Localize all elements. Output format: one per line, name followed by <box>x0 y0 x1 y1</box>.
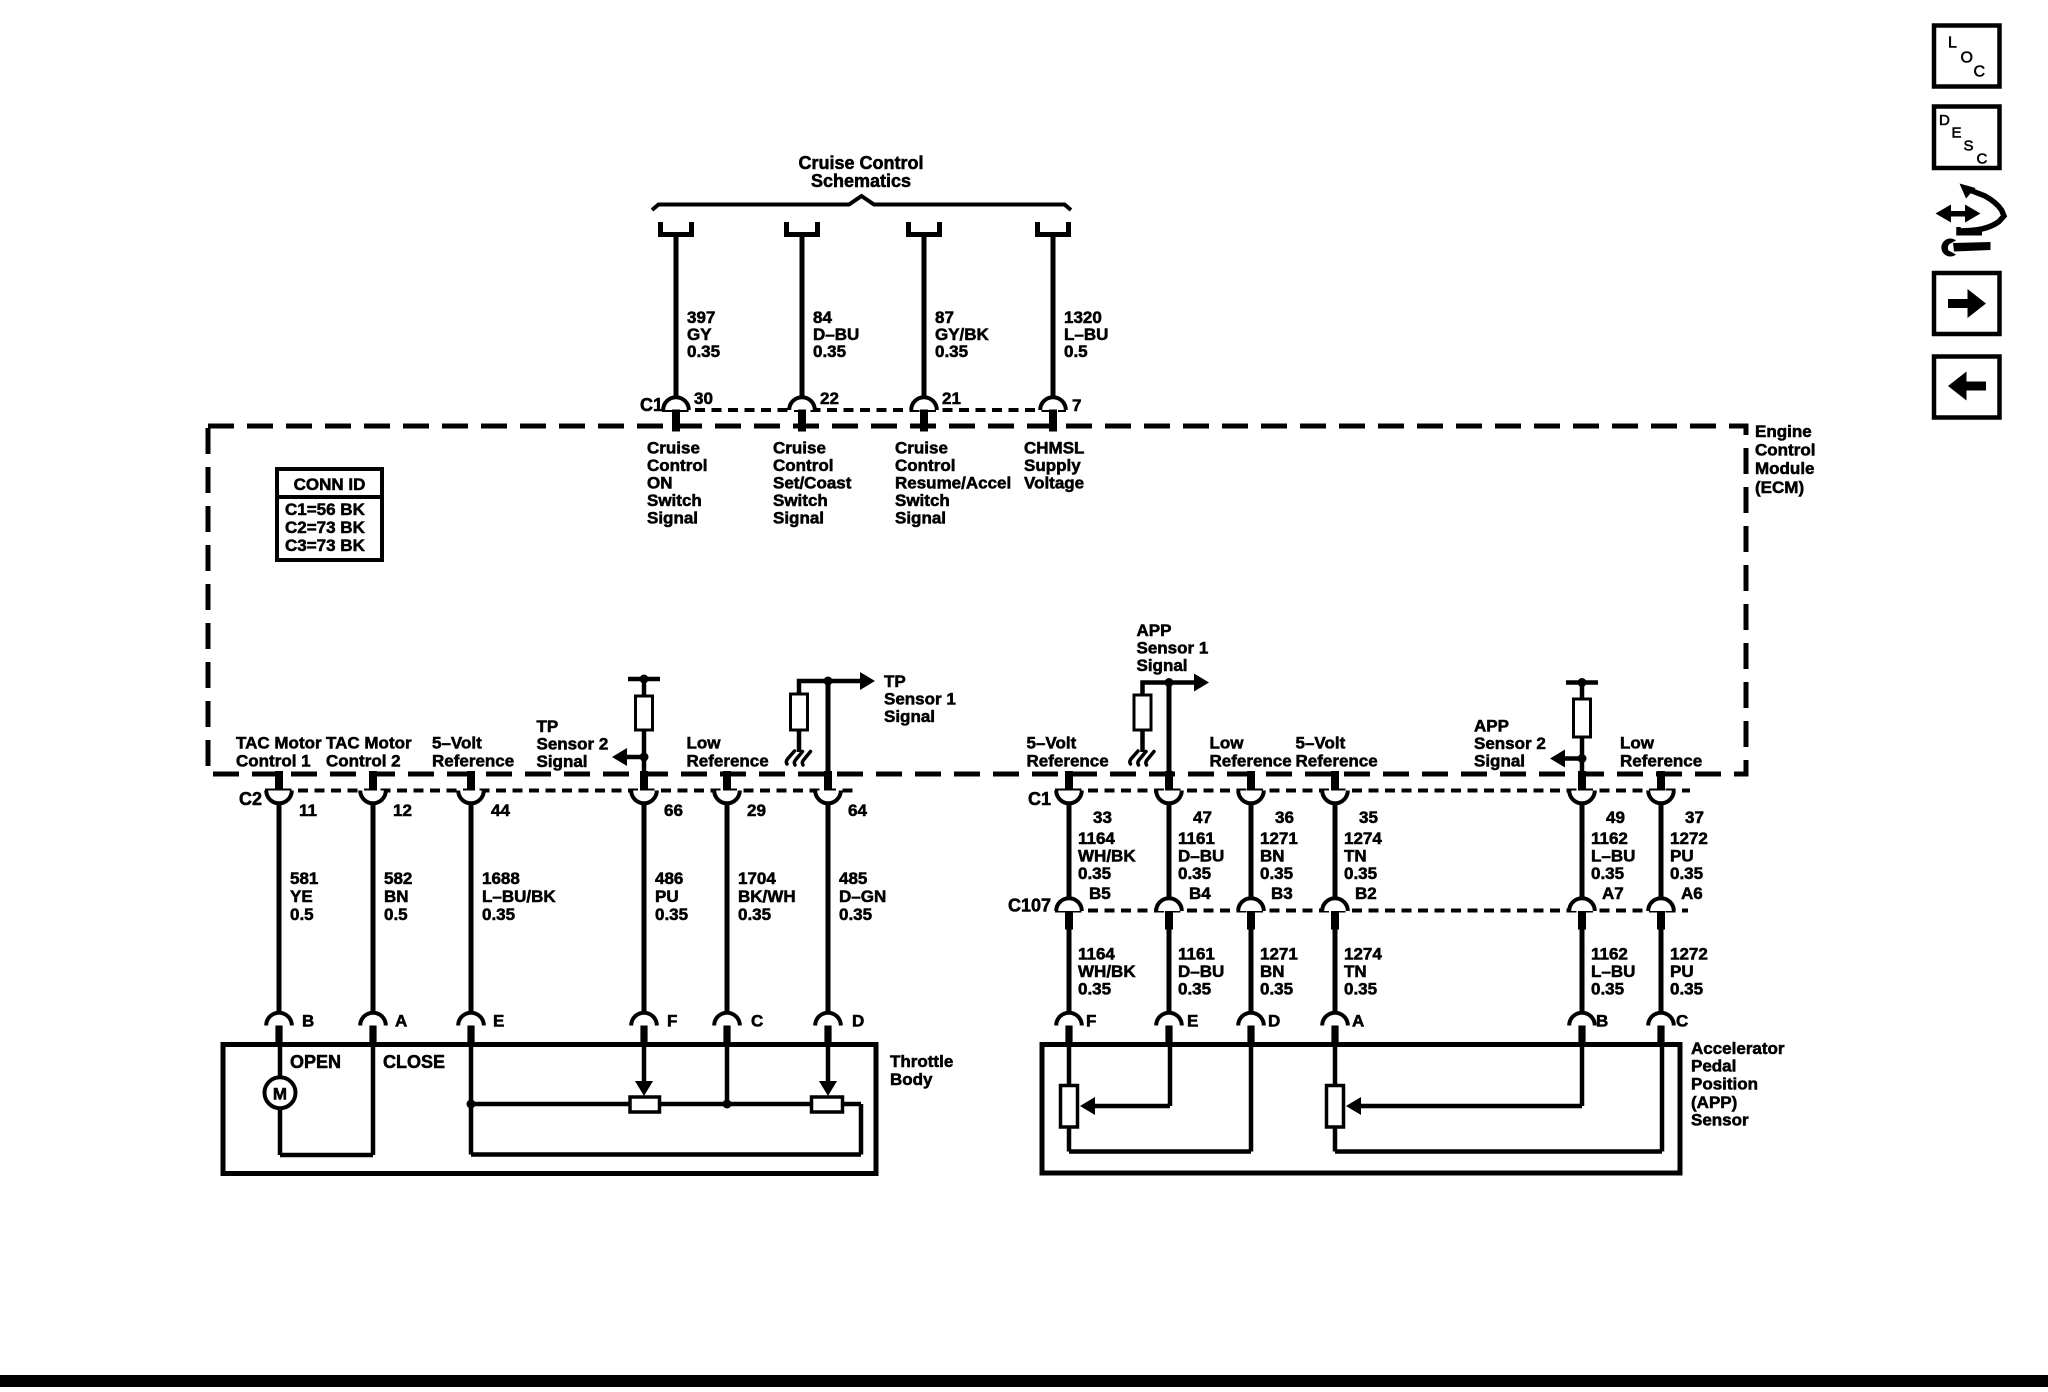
svg-text:D: D <box>1268 1012 1280 1031</box>
internal 5V bar over resistor R-APP2 <box>1566 680 1598 685</box>
svg-text:CONN ID: CONN ID <box>294 475 366 494</box>
rail right of potentiometer <box>843 1102 862 1107</box>
svg-text:BN: BN <box>1260 962 1285 981</box>
svg-text:B4: B4 <box>1189 884 1211 903</box>
TP Sensor 1 signal arrowhead <box>860 672 875 690</box>
svg-text:B5: B5 <box>1089 884 1111 903</box>
svg-text:33: 33 <box>1093 808 1112 827</box>
APP Sensor 2 signal arrowhead <box>1550 750 1565 768</box>
wire pin B down to wiper <box>1580 1045 1585 1107</box>
svg-text:E: E <box>493 1012 504 1031</box>
svg-text:C1: C1 <box>640 395 663 415</box>
svg-text:Signal: Signal <box>1137 656 1188 675</box>
svg-text:0.35: 0.35 <box>1670 980 1703 999</box>
pin 22 stub into ECM <box>798 410 806 432</box>
connector pin B2 terminal (C107) <box>1322 898 1348 911</box>
svg-text:L–BU/BK: L–BU/BK <box>482 887 556 906</box>
svg-text:C: C <box>751 1012 763 1031</box>
APP Sensor 2 signal arrow shaft <box>1559 756 1582 761</box>
wire pin D up <box>1249 1045 1254 1152</box>
svg-text:0.35: 0.35 <box>1344 864 1377 883</box>
svg-text:E: E <box>1952 125 1962 142</box>
pin 12 stub out of ECM <box>369 771 377 792</box>
svg-text:Reference: Reference <box>1620 752 1702 771</box>
svg-text:CHMSL: CHMSL <box>1024 438 1084 457</box>
svg-text:TP: TP <box>884 672 906 691</box>
svg-text:1164: 1164 <box>1078 945 1115 964</box>
pin F stub into APP sensor <box>1065 1026 1072 1045</box>
svg-text:Position: Position <box>1691 1075 1758 1094</box>
TP sensor 1 wiper arrowhead <box>819 1081 837 1096</box>
svg-text:1271: 1271 <box>1260 945 1298 964</box>
svg-text:1164: 1164 <box>1078 829 1115 848</box>
wire R-TP1 bottom to ground <box>797 730 802 752</box>
svg-text:(ECM): (ECM) <box>1755 478 1804 497</box>
svg-text:BK/WH: BK/WH <box>738 887 796 906</box>
svg-text:APP: APP <box>1137 621 1172 640</box>
svg-text:0.35: 0.35 <box>1178 864 1211 883</box>
wrench/double-arrow icon <box>1936 205 1952 223</box>
throttle body pin B terminal <box>266 1013 292 1026</box>
APP sensor 2 wiper arrow shaft <box>1351 1104 1582 1109</box>
svg-text:Cruise: Cruise <box>895 438 948 457</box>
pin 47 stub out of ECM <box>1165 771 1173 792</box>
wire pin 47 down from junction <box>1167 683 1172 774</box>
svg-text:Signal: Signal <box>773 508 824 527</box>
pin 64 stub out of ECM <box>824 771 832 792</box>
resistor R-TP2 (pull-up, pin 66) <box>636 696 653 730</box>
connector pin 29 terminal (C2) <box>714 791 740 804</box>
svg-text:PU: PU <box>655 887 679 906</box>
TP Sensor 2 signal arrowhead <box>612 748 627 766</box>
svg-text:Signal: Signal <box>895 508 946 527</box>
pin 35 stub out of ECM <box>1331 771 1339 792</box>
APP sensor 1 wiper arrowhead <box>1080 1097 1095 1115</box>
pin 44 stub out of ECM <box>467 771 475 792</box>
svg-text:582: 582 <box>384 869 412 888</box>
wire pin A7 down to APP sensor <box>1580 929 1585 1014</box>
svg-text:M: M <box>273 1085 287 1104</box>
svg-text:Throttle: Throttle <box>890 1052 953 1071</box>
connector pin A6 terminal (C107) <box>1648 898 1674 911</box>
svg-text:5–Volt: 5–Volt <box>1027 734 1077 753</box>
wire pin E down to wiper <box>1168 1045 1173 1107</box>
throttle body pin E terminal <box>458 1013 484 1026</box>
svg-text:0.35: 0.35 <box>813 342 846 361</box>
wire pin 37 down to C107 <box>1659 803 1664 899</box>
bottom return wire <box>471 1152 861 1157</box>
pin 29 stub out of ECM <box>723 771 731 792</box>
svg-text:0.35: 0.35 <box>1078 980 1111 999</box>
svg-text:0.35: 0.35 <box>935 342 968 361</box>
wire up to E junction <box>469 1104 474 1155</box>
pin B3 stub below C107 <box>1247 911 1255 930</box>
wire pin 12 down to throttle body <box>371 803 376 1014</box>
cruise Set/Coast switch terminal <box>787 222 818 235</box>
svg-text:Accelerator: Accelerator <box>1691 1039 1785 1058</box>
connector pin 12 terminal (C2) <box>360 791 386 804</box>
APP sensor 2 potentiometer element <box>1327 1086 1344 1128</box>
svg-text:Switch: Switch <box>647 491 702 510</box>
pin 49 stub out of ECM <box>1578 771 1586 792</box>
svg-text:A7: A7 <box>1602 884 1624 903</box>
connector pin 21 terminal (C1) <box>911 397 937 410</box>
pin 37 stub out of ECM <box>1657 771 1665 792</box>
svg-text:47: 47 <box>1193 808 1212 827</box>
svg-text:Control 1: Control 1 <box>236 752 311 771</box>
wire pot2 bottom <box>1333 1127 1338 1152</box>
svg-text:E: E <box>1187 1012 1198 1031</box>
connector pin 35 terminal (C1 right) <box>1322 791 1348 804</box>
svg-text:Engine: Engine <box>1755 422 1812 441</box>
svg-text:(APP): (APP) <box>1691 1093 1737 1112</box>
wire pin 64 down to throttle body <box>826 803 831 1014</box>
cruise ON switch terminal <box>661 222 692 235</box>
svg-text:Sensor 1: Sensor 1 <box>884 690 956 709</box>
connector row C107 dashed line <box>1055 909 1688 913</box>
wire pin 11 down to throttle body <box>277 803 282 1014</box>
svg-text:66: 66 <box>664 801 683 820</box>
svg-text:L: L <box>1948 35 1957 52</box>
svg-text:0.35: 0.35 <box>655 905 688 924</box>
connector pin A7 terminal (C107) <box>1569 898 1595 911</box>
wire pot1 bottom <box>1067 1127 1072 1152</box>
pin B4 stub below C107 <box>1165 911 1173 930</box>
svg-text:0.35: 0.35 <box>1670 864 1703 883</box>
svg-text:485: 485 <box>839 869 867 888</box>
svg-text:486: 486 <box>655 869 683 888</box>
svg-text:7: 7 <box>1072 396 1081 415</box>
svg-text:Signal: Signal <box>647 508 698 527</box>
wire pin B2 down to APP sensor <box>1333 929 1338 1014</box>
pin 66 stub out of ECM <box>640 771 648 792</box>
wire from CHMSL supply terminal <box>1051 237 1056 398</box>
wire pot1 to pin D <box>1069 1149 1251 1154</box>
svg-text:Cruise: Cruise <box>647 438 700 457</box>
wire pin A6 down to APP sensor <box>1659 929 1664 1014</box>
svg-text:Reference: Reference <box>1027 752 1109 771</box>
svg-text:0.5: 0.5 <box>290 905 314 924</box>
svg-text:Switch: Switch <box>773 491 828 510</box>
svg-text:1271: 1271 <box>1260 829 1298 848</box>
pin E stub into throttle body <box>467 1026 474 1045</box>
svg-text:0.35: 0.35 <box>839 905 872 924</box>
APP sensor 1 potentiometer element <box>1061 1086 1078 1128</box>
svg-text:TAC Motor: TAC Motor <box>236 734 322 753</box>
wire pin B5 down to APP sensor <box>1067 929 1072 1014</box>
wire pin B to motor <box>278 1045 283 1079</box>
svg-text:1161: 1161 <box>1178 829 1215 848</box>
svg-text:11: 11 <box>299 801 317 820</box>
wire pin B4 down to APP sensor <box>1167 929 1172 1014</box>
TP sensor 1 wiper arrow shaft <box>826 1045 831 1082</box>
wire pin A into pot <box>1333 1045 1338 1086</box>
svg-text:C3=73 BK: C3=73 BK <box>285 536 366 555</box>
svg-text:1688: 1688 <box>482 869 520 888</box>
svg-text:A: A <box>1352 1012 1364 1031</box>
throttle body pin A terminal <box>360 1013 386 1026</box>
svg-text:D–GN: D–GN <box>839 887 886 906</box>
pin C stub into throttle body <box>723 1026 730 1045</box>
Throttle Body box <box>223 1045 876 1174</box>
junction dot on R-APP2 top <box>1578 678 1587 687</box>
APP sensor 2 wiper arrowhead <box>1346 1097 1361 1115</box>
connector row C1 dashed line (top) <box>662 408 1066 412</box>
svg-text:581: 581 <box>290 869 318 888</box>
brace over cruise-control switch wires <box>652 196 1071 210</box>
svg-text:Control 2: Control 2 <box>326 752 401 771</box>
connector row C1 (right) dashed line <box>1055 789 1690 793</box>
svg-text:0.35: 0.35 <box>1260 864 1293 883</box>
wire pin B3 down to APP sensor <box>1249 929 1254 1014</box>
svg-text:49: 49 <box>1606 808 1625 827</box>
svg-text:0.35: 0.35 <box>482 905 515 924</box>
svg-text:ON: ON <box>647 473 673 492</box>
pin D stub into throttle body <box>824 1026 831 1045</box>
rail between potentiometers <box>660 1102 812 1107</box>
pin B stub into APP sensor <box>1578 1026 1585 1045</box>
connector pin 33 terminal (C1 right) <box>1056 791 1082 804</box>
CONN ID table <box>277 469 382 560</box>
pin 33 stub out of ECM <box>1065 771 1073 792</box>
svg-text:5–Volt: 5–Volt <box>432 734 482 753</box>
svg-text:36: 36 <box>1275 808 1294 827</box>
svg-text:Reference: Reference <box>687 752 769 771</box>
TP sensor 2 wiper arrowhead <box>635 1081 653 1096</box>
svg-text:Control: Control <box>647 456 707 475</box>
wire pin F into pot <box>1067 1045 1072 1086</box>
svg-text:22: 22 <box>820 389 839 408</box>
wire R-APP1 bottom to ground <box>1140 730 1145 752</box>
junction dot on R-TP2 top <box>640 675 649 684</box>
svg-text:Low: Low <box>1620 734 1655 753</box>
svg-text:Control: Control <box>895 456 955 475</box>
svg-text:Control: Control <box>1755 441 1815 460</box>
pin A6 stub below C107 <box>1657 911 1665 930</box>
svg-text:Low: Low <box>1210 734 1245 753</box>
forward arrow box <box>1934 273 2000 334</box>
svg-text:WH/BK: WH/BK <box>1078 962 1136 981</box>
pin 7 stub into ECM <box>1049 410 1057 432</box>
APP sensor pin B terminal <box>1569 1013 1595 1026</box>
Engine Control Module (ECM) dashed boundary <box>208 426 1746 774</box>
svg-text:A: A <box>395 1012 407 1031</box>
TP Sensor 2 signal arrow shaft <box>621 755 644 760</box>
wire pin 29 down to throttle body <box>725 803 730 1014</box>
svg-text:0.35: 0.35 <box>738 905 771 924</box>
svg-text:1272: 1272 <box>1670 945 1708 964</box>
svg-text:C2: C2 <box>239 789 262 809</box>
LOC hyperlink box <box>1934 26 2000 87</box>
svg-text:Low: Low <box>687 734 722 753</box>
svg-text:1162: 1162 <box>1591 829 1628 848</box>
wire R-TP2 bottom to junction <box>642 730 647 759</box>
resistor R-APP1 (pull-up, pin 47) <box>1134 695 1151 730</box>
wire motor return bottom <box>280 1153 373 1158</box>
pin C stub into APP sensor <box>1657 1026 1664 1045</box>
junction dot pin C rail <box>723 1100 732 1109</box>
APP sensor pin D terminal <box>1238 1013 1264 1026</box>
TP low-reference rail (left) <box>471 1102 630 1107</box>
svg-text:64: 64 <box>848 801 867 820</box>
svg-text:Cruise: Cruise <box>773 438 826 457</box>
wire R-APP1 top bend <box>1143 683 1170 696</box>
APP sensor pin E terminal <box>1156 1013 1182 1026</box>
internal 5V bar over resistor R-TP2 <box>628 677 660 682</box>
svg-text:1274: 1274 <box>1344 945 1382 964</box>
pin B5 stub below C107 <box>1065 911 1073 930</box>
wire down right side <box>859 1104 864 1155</box>
junction dot APP Sensor 2 signal <box>1578 754 1587 763</box>
svg-text:BN: BN <box>1260 847 1285 866</box>
back arrow box <box>1934 357 2000 418</box>
connector pin 49 terminal (C1 right) <box>1569 791 1595 804</box>
svg-text:CLOSE: CLOSE <box>383 1052 445 1072</box>
throttle body pin F terminal <box>631 1013 657 1026</box>
svg-text:0.5: 0.5 <box>384 905 408 924</box>
svg-text:D–BU: D–BU <box>1178 962 1224 981</box>
TP sensor 2 wiper arrow shaft <box>642 1045 647 1082</box>
junction dot APP Sensor 1 signal <box>1165 678 1174 687</box>
svg-text:1272: 1272 <box>1670 829 1708 848</box>
pin D stub into APP sensor <box>1247 1026 1254 1045</box>
pin 21 stub into ECM <box>920 410 928 432</box>
pin 36 stub out of ECM <box>1247 771 1255 792</box>
wire from cruise Resume/Accel switch terminal <box>922 237 927 398</box>
connector pin 7 terminal (C1) <box>1040 397 1066 410</box>
svg-text:A6: A6 <box>1681 884 1703 903</box>
resistor R-APP2 (pull-up, pin 49) <box>1574 699 1591 737</box>
svg-text:L–BU: L–BU <box>1591 847 1635 866</box>
TP sensor 1 potentiometer element <box>812 1097 843 1112</box>
wire pin C down <box>725 1045 730 1105</box>
svg-text:YE: YE <box>290 887 313 906</box>
connector pin 30 terminal (C1) <box>663 397 689 410</box>
svg-text:35: 35 <box>1359 808 1378 827</box>
svg-text:Body: Body <box>890 1070 933 1089</box>
APP Sensor 1 signal arrow shaft <box>1169 680 1194 685</box>
svg-text:0.5: 0.5 <box>1064 342 1088 361</box>
svg-text:Reference: Reference <box>1296 752 1378 771</box>
wire R-APP2 bottom to junction <box>1580 737 1585 760</box>
svg-text:C107: C107 <box>1008 896 1051 916</box>
throttle body pin D terminal <box>815 1013 841 1026</box>
svg-text:C: C <box>1977 151 1988 168</box>
connector row C2 dashed line <box>265 789 858 793</box>
svg-text:29: 29 <box>747 801 766 820</box>
connector pin B4 terminal (C107) <box>1156 898 1182 911</box>
junction dot pin E rail <box>467 1100 476 1109</box>
wire from cruise ON switch terminal <box>674 237 679 398</box>
svg-text:B3: B3 <box>1271 884 1293 903</box>
connector pin 36 terminal (C1 right) <box>1238 791 1264 804</box>
svg-text:Sensor 1: Sensor 1 <box>1137 639 1209 658</box>
svg-text:C1: C1 <box>1028 789 1051 809</box>
svg-text:0.35: 0.35 <box>1591 980 1624 999</box>
wire R-TP2 top <box>642 679 647 696</box>
svg-text:Cruise Control: Cruise Control <box>798 153 923 173</box>
svg-text:O: O <box>1961 50 1973 67</box>
wire pin 49 down to C107 <box>1580 803 1585 899</box>
svg-text:Sensor 2: Sensor 2 <box>537 735 609 754</box>
pin 30 stub into ECM <box>672 410 680 432</box>
svg-text:0.35: 0.35 <box>1178 980 1211 999</box>
connector pin B3 terminal (C107) <box>1238 898 1264 911</box>
svg-text:Signal: Signal <box>1474 752 1525 771</box>
svg-text:1161: 1161 <box>1178 945 1215 964</box>
svg-text:1162: 1162 <box>1591 945 1628 964</box>
wire motor to bottom <box>278 1108 283 1155</box>
svg-text:1274: 1274 <box>1344 829 1382 848</box>
connector pin B5 terminal (C107) <box>1056 898 1082 911</box>
APP sensor pin A terminal <box>1322 1013 1348 1026</box>
wire pin 33 down to C107 <box>1067 803 1072 899</box>
connector pin 44 terminal (C2) <box>458 791 484 804</box>
svg-text:WH/BK: WH/BK <box>1078 847 1136 866</box>
wire pin 36 down to C107 <box>1249 803 1254 899</box>
pin A stub into throttle body <box>369 1026 376 1045</box>
wire pin 66 down to throttle body <box>642 803 647 1014</box>
svg-text:Schematics: Schematics <box>811 171 911 191</box>
svg-text:Reference: Reference <box>1210 752 1292 771</box>
connector pin 47 terminal (C1 right) <box>1156 791 1182 804</box>
svg-text:F: F <box>667 1012 677 1031</box>
svg-text:Control: Control <box>773 456 833 475</box>
connector pin 37 terminal (C1 right) <box>1648 791 1674 804</box>
svg-text:PU: PU <box>1670 962 1694 981</box>
svg-text:Module: Module <box>1755 459 1815 478</box>
DESC hyperlink box <box>1934 107 2000 169</box>
pin B stub into throttle body <box>275 1026 282 1045</box>
APP sensor pin C terminal <box>1648 1013 1674 1026</box>
svg-text:0.35: 0.35 <box>1078 864 1111 883</box>
pin E stub into APP sensor <box>1165 1026 1172 1045</box>
svg-text:C: C <box>1974 64 1986 81</box>
svg-text:Supply: Supply <box>1024 456 1081 475</box>
svg-text:PU: PU <box>1670 847 1694 866</box>
svg-text:TN: TN <box>1344 962 1367 981</box>
connector pin 11 terminal (C2) <box>266 791 292 804</box>
svg-text:D: D <box>852 1012 864 1031</box>
svg-text:B2: B2 <box>1355 884 1377 903</box>
wire from cruise Set/Coast switch terminal <box>800 237 805 398</box>
svg-text:Switch: Switch <box>895 491 950 510</box>
svg-text:Pedal: Pedal <box>1691 1057 1736 1076</box>
wire pin 35 down to C107 <box>1333 803 1338 899</box>
resistor R-TP1 (pull-up, pin 64) <box>791 694 808 730</box>
svg-text:Signal: Signal <box>884 707 935 726</box>
connector pin 64 terminal (C2) <box>815 791 841 804</box>
svg-text:S: S <box>1964 138 1974 155</box>
svg-text:D: D <box>1939 112 1950 129</box>
APP sensor 1 wiper arrow shaft <box>1085 1104 1170 1109</box>
pin A7 stub below C107 <box>1578 911 1586 930</box>
ground (ECM internal, APP) <box>1130 751 1154 765</box>
APP sensor pin F terminal <box>1056 1013 1082 1026</box>
svg-text:Reference: Reference <box>432 752 514 771</box>
svg-text:D–BU: D–BU <box>1178 847 1224 866</box>
wire pin C up <box>1660 1045 1665 1152</box>
wire pin 47 down to C107 <box>1167 803 1172 899</box>
svg-text:TP: TP <box>537 717 559 736</box>
svg-text:OPEN: OPEN <box>290 1052 341 1072</box>
svg-text:0.35: 0.35 <box>687 342 720 361</box>
svg-text:TN: TN <box>1344 847 1367 866</box>
cruise Resume/Accel switch terminal <box>909 222 940 235</box>
connector pin 22 terminal (C1) <box>789 397 815 410</box>
svg-text:TAC Motor: TAC Motor <box>326 734 412 753</box>
svg-text:Signal: Signal <box>537 752 588 771</box>
